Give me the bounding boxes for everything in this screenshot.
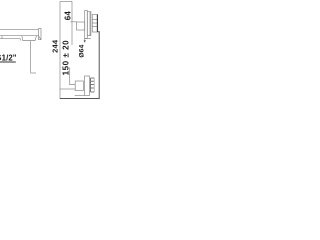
lever reference tick [71,21,77,23]
wall line [98,32,100,99]
leader line vertical [30,41,32,73]
svg-text:Ø64: Ø64 [78,45,85,58]
union body [85,76,90,96]
svg-text:244: 244 [51,39,60,53]
extension line C [70,68,76,85]
wall union (lower right) [75,76,95,96]
outlet stem [84,39,86,41]
extension line B [71,1,73,45]
outlet arrow [84,40,86,43]
handle column R1 [85,11,88,39]
aerator tick [1,36,3,39]
lock nut stack [91,78,95,92]
label underline [0,61,16,63]
floor line [60,98,100,100]
R2 inner line [89,12,91,36]
union nut dark edge [96,15,98,33]
body column R2 [87,12,91,36]
base line [75,95,85,97]
union nut R3 [92,15,97,33]
nut flats [92,19,97,21]
end cap chamfer [39,36,41,40]
inlet square [75,81,83,91]
faucet body top edge (plan view) [0,28,39,30]
side view (upper right) [77,11,98,41]
extension line A [59,1,61,99]
diverter cup [22,36,37,41]
top dimension connector [60,0,72,2]
valve end cap [39,29,41,40]
lever knob [77,22,85,30]
svg-text:64: 64 [63,11,72,21]
svg-text:150 ± 20: 150 ± 20 [61,40,70,75]
leader line foot [31,72,36,74]
body bottom [85,38,91,40]
svg-text:G1/2": G1/2" [0,53,17,62]
extension A branch to inlet [60,88,75,90]
spout underside [0,39,20,41]
faucet body bottom edge (plan view) [0,35,39,37]
